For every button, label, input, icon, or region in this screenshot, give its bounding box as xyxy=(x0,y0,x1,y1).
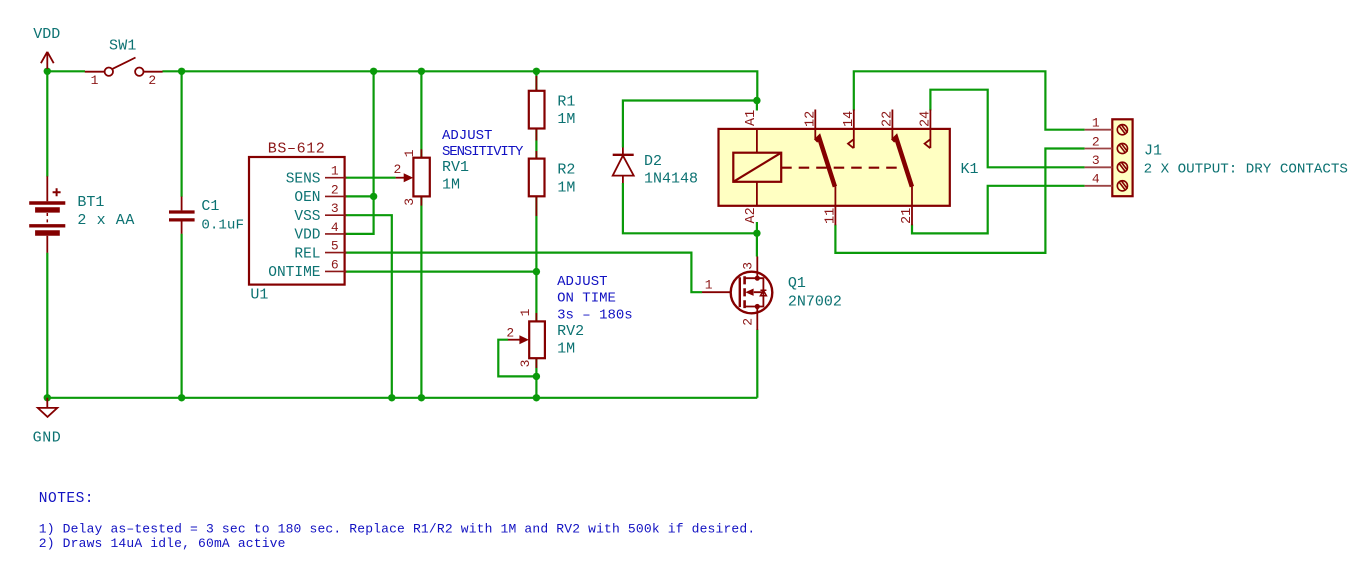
svg-text:1M: 1M xyxy=(557,340,575,357)
wire REL to Q1 gate xyxy=(345,253,702,293)
wire OEN to VDD riser xyxy=(345,195,374,197)
svg-text:ON TIME: ON TIME xyxy=(557,291,616,307)
junction top rail U1 VDD riser xyxy=(370,68,377,75)
svg-text:1: 1 xyxy=(91,73,99,88)
wire Q1 source to rail xyxy=(756,330,758,398)
svg-text:VDD: VDD xyxy=(33,26,60,43)
svg-text:14: 14 xyxy=(842,111,857,127)
svg-text:5: 5 xyxy=(331,239,339,254)
svg-text:K1: K1 xyxy=(961,161,979,178)
svg-text:1M: 1M xyxy=(442,177,460,194)
RV2 wiper arrow xyxy=(519,335,529,344)
U1 pin stubs xyxy=(325,178,347,272)
svg-text:3: 3 xyxy=(402,198,417,206)
svg-text:C1: C1 xyxy=(201,198,219,215)
svg-text:A2: A2 xyxy=(744,207,759,223)
wire K1 pin21 to J1 pin4 xyxy=(912,186,1085,234)
svg-text:REL: REL xyxy=(294,246,320,262)
junction top rail C1 xyxy=(178,68,185,75)
svg-text:U1: U1 xyxy=(250,286,268,303)
RV1 wiper arrow xyxy=(404,173,414,182)
wire VSS down to rail xyxy=(345,215,392,398)
wire D2 bottom link xyxy=(623,183,757,233)
J1 pin stubs xyxy=(1085,130,1113,186)
transistor Q1 2N7002 xyxy=(702,257,772,331)
svg-text:2: 2 xyxy=(740,318,755,326)
junction A1 D2 xyxy=(753,97,760,104)
wire A2 to Q1 drain xyxy=(756,233,758,256)
svg-text:22: 22 xyxy=(880,111,895,127)
svg-text:ADJUST: ADJUST xyxy=(442,128,492,144)
svg-text:12: 12 xyxy=(803,111,818,127)
wire R1 R2 RV2 branch vertical xyxy=(535,71,537,398)
wire SENS to RV1 xyxy=(345,177,396,179)
svg-text:4: 4 xyxy=(331,220,339,235)
svg-text:R1: R1 xyxy=(557,93,575,110)
battery BT1 xyxy=(29,176,65,253)
junction ONTIME xyxy=(533,268,540,275)
svg-text:SENS: SENS xyxy=(286,171,321,187)
wire bottom GND rail xyxy=(47,397,757,399)
J1 screw terminals xyxy=(1117,125,1127,191)
wire K1 pin24 to J1 pin3 xyxy=(930,90,1084,168)
svg-text:2: 2 xyxy=(394,162,402,177)
power VDD symbol xyxy=(41,52,54,69)
wire D2 top link xyxy=(623,101,757,148)
wire RV1 branch vertical xyxy=(420,71,422,398)
svg-text:2 x AA: 2 x AA xyxy=(77,212,135,229)
junction bottom rail C1 xyxy=(178,394,185,401)
relay K1 body xyxy=(719,129,950,206)
diode D2 xyxy=(613,148,634,184)
connector J1 body xyxy=(1112,119,1132,196)
junction top rail RV1 xyxy=(418,68,425,75)
svg-text:3: 3 xyxy=(331,201,339,216)
svg-text:R2: R2 xyxy=(557,162,575,179)
wire ONTIME to RV2 net xyxy=(345,271,537,273)
wire C1 branch vertical xyxy=(181,71,183,398)
junction A2 D2 Q1 xyxy=(753,230,760,237)
junction OEN xyxy=(370,193,377,200)
junction bottom rail RV2 xyxy=(533,394,540,401)
junction RV2 wiper xyxy=(533,373,540,380)
potentiometer RV2 xyxy=(508,313,545,368)
svg-text:6: 6 xyxy=(331,257,339,272)
wire K1 coil A1-A2 vertical xyxy=(756,101,758,234)
svg-text:24: 24 xyxy=(918,111,933,127)
svg-text:3: 3 xyxy=(518,360,533,368)
svg-text:2N7002: 2N7002 xyxy=(788,293,842,310)
svg-text:21: 21 xyxy=(900,208,915,224)
ground symbol GND xyxy=(38,398,58,417)
svg-text:0.1uF: 0.1uF xyxy=(201,217,244,233)
svg-text:BS–612: BS–612 xyxy=(268,140,326,157)
svg-text:VDD: VDD xyxy=(294,228,320,244)
svg-text:1: 1 xyxy=(1092,116,1100,131)
svg-text:J1: J1 xyxy=(1144,142,1162,159)
svg-text:1M: 1M xyxy=(557,179,575,196)
svg-text:3s – 180s: 3s – 180s xyxy=(557,307,633,323)
svg-text:2: 2 xyxy=(331,182,339,197)
wire battery branch vertical xyxy=(46,71,48,398)
svg-text:ONTIME: ONTIME xyxy=(268,265,320,281)
relay K1 dashed link xyxy=(781,167,902,169)
svg-text:D2: D2 xyxy=(644,153,662,170)
svg-text:2: 2 xyxy=(506,325,514,340)
svg-text:4: 4 xyxy=(1092,172,1100,187)
Q1 internal junctions xyxy=(755,276,760,310)
wire K1 pin14 to J1 pin1 xyxy=(854,71,1085,129)
junction bottom rail GND xyxy=(44,394,51,401)
junction bottom rail VSS xyxy=(388,394,395,401)
svg-text:3: 3 xyxy=(1092,153,1100,168)
wire top VDD rail xyxy=(162,71,757,100)
svg-text:RV2: RV2 xyxy=(557,323,584,340)
resistor R2 xyxy=(529,151,545,216)
capacitor C1 xyxy=(169,197,195,234)
wire U1 VDD pin riser xyxy=(345,71,374,234)
svg-text:1: 1 xyxy=(331,164,339,179)
svg-text:1N4148: 1N4148 xyxy=(644,170,698,187)
svg-text:RV1: RV1 xyxy=(442,159,469,176)
svg-text:1: 1 xyxy=(402,149,417,157)
junction top rail R1 xyxy=(533,68,540,75)
svg-text:SW1: SW1 xyxy=(109,37,137,54)
svg-text:2) Draws 14uA idle, 60mA activ: 2) Draws 14uA idle, 60mA active xyxy=(39,536,286,551)
svg-text:GND: GND xyxy=(33,430,62,447)
op-amp U1 BS-612 body xyxy=(249,157,345,285)
potentiometer RV1 xyxy=(396,149,430,205)
junction VDD corner xyxy=(44,68,51,75)
svg-text:NOTES:: NOTES: xyxy=(39,491,94,507)
wire K1 pin11 to J1 pin2 xyxy=(835,149,1084,253)
svg-text:2 X OUTPUT: DRY CONTACTS: 2 X OUTPUT: DRY CONTACTS xyxy=(1144,162,1348,178)
svg-text:VSS: VSS xyxy=(294,209,320,225)
svg-text:Q1: Q1 xyxy=(788,275,806,292)
svg-text:A1: A1 xyxy=(744,110,759,126)
svg-text:ADJUST: ADJUST xyxy=(557,274,607,290)
wire RV2 wiper loop xyxy=(498,340,536,377)
svg-text:OEN: OEN xyxy=(294,190,320,206)
svg-text:1: 1 xyxy=(518,308,533,316)
svg-text:SENSITIVITY: SENSITIVITY xyxy=(442,144,524,160)
svg-text:1) Delay as–tested = 3 sec to: 1) Delay as–tested = 3 sec to 180 sec. R… xyxy=(39,521,756,536)
svg-text:1: 1 xyxy=(705,278,713,293)
svg-text:BT1: BT1 xyxy=(77,194,104,211)
svg-text:2: 2 xyxy=(148,73,156,88)
relay K1 pole 2 xyxy=(892,110,930,226)
svg-text:3: 3 xyxy=(740,262,755,270)
relay K1 pole 1 xyxy=(815,110,854,226)
wire top VDD rail left of switch xyxy=(47,70,85,72)
Q1 arrow xyxy=(745,289,753,296)
svg-text:11: 11 xyxy=(823,208,838,224)
switch SW1 xyxy=(85,58,163,76)
junction bottom rail RV1 xyxy=(418,394,425,401)
resistor R1 xyxy=(529,76,545,141)
relay K1 coil xyxy=(733,129,781,206)
svg-text:2: 2 xyxy=(1092,134,1100,149)
svg-text:1M: 1M xyxy=(557,111,575,128)
